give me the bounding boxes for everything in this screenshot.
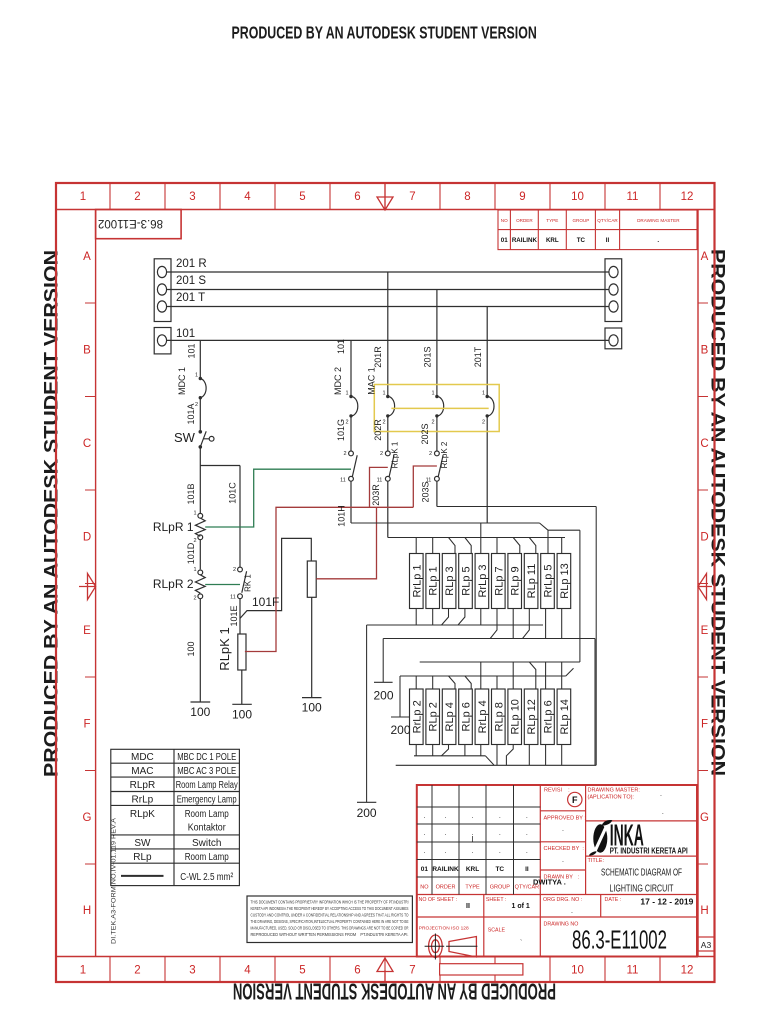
svg-text:.: . <box>660 791 662 798</box>
svg-text:4: 4 <box>244 965 251 977</box>
svg-text:1: 1 <box>482 391 485 397</box>
svg-text:ORDER: ORDER <box>516 218 533 223</box>
svg-text:12: 12 <box>681 191 694 203</box>
svg-text:.: . <box>657 237 659 244</box>
svg-text:200: 200 <box>390 723 410 737</box>
svg-text:RrLp 2: RrLp 2 <box>411 700 423 733</box>
svg-text:RLp 10: RLp 10 <box>510 699 522 734</box>
svg-text:2: 2 <box>380 451 383 457</box>
svg-text:NO OF SHEET :: NO OF SHEET : <box>419 897 458 903</box>
svg-text:Emergency Lamp: Emergency Lamp <box>177 794 237 805</box>
svg-text:100: 100 <box>232 708 252 722</box>
svg-text:11: 11 <box>377 478 383 484</box>
svg-text:REVISI :: REVISI : <box>544 788 570 794</box>
svg-text:.: . <box>526 813 528 820</box>
svg-text:5: 5 <box>299 191 305 203</box>
svg-text:100: 100 <box>302 701 322 715</box>
svg-text:201R: 201R <box>373 346 383 368</box>
svg-text:RLpK 1: RLpK 1 <box>217 627 232 670</box>
svg-text:2: 2 <box>429 451 432 457</box>
svg-text:RLp 9: RLp 9 <box>510 566 522 595</box>
svg-text:2: 2 <box>431 420 434 426</box>
svg-text:.: . <box>445 830 447 837</box>
svg-text:7: 7 <box>409 191 415 203</box>
svg-text:101D: 101D <box>186 542 196 564</box>
svg-text:SCHEMATIC DIAGRAM OF: SCHEMATIC DIAGRAM OF <box>601 867 682 879</box>
svg-text:RLp 13: RLp 13 <box>559 563 571 598</box>
svg-text:RLpK 1: RLpK 1 <box>391 441 400 468</box>
svg-text:MDC 2: MDC 2 <box>333 367 343 395</box>
svg-text:.: . <box>662 809 664 816</box>
svg-text:.: . <box>571 908 573 915</box>
svg-text:101: 101 <box>187 343 197 358</box>
svg-text:RLp 14: RLp 14 <box>559 699 571 734</box>
svg-text:TYPE: TYPE <box>465 885 480 891</box>
svg-text:RK 1: RK 1 <box>244 574 253 592</box>
svg-text:11: 11 <box>340 478 346 484</box>
svg-text:01: 01 <box>421 866 429 873</box>
svg-text:Room Lamp: Room Lamp <box>185 809 229 820</box>
svg-text:101F: 101F <box>252 595 279 609</box>
svg-text:11: 11 <box>230 595 236 601</box>
svg-text:G: G <box>700 812 709 824</box>
svg-text:1: 1 <box>345 391 348 397</box>
svg-text:CUSTODY AND CONTROL UNDER A CO: CUSTODY AND CONTROL UNDER A CONFIDENTIAL… <box>251 913 409 918</box>
svg-text:TYPE: TYPE <box>546 218 558 223</box>
svg-text:201T: 201T <box>473 346 483 367</box>
svg-text:A: A <box>83 251 91 263</box>
svg-text:101E: 101E <box>229 605 239 626</box>
svg-text:MDC: MDC <box>131 752 154 763</box>
svg-text:2: 2 <box>382 420 385 426</box>
svg-text:.: . <box>499 813 501 820</box>
svg-text:01: 01 <box>501 237 508 244</box>
svg-text:KRL: KRL <box>546 237 559 244</box>
svg-text:1: 1 <box>80 191 86 203</box>
svg-text:DWITYA .: DWITYA . <box>533 878 566 887</box>
svg-text:MBC DC 1 POLE: MBC DC 1 POLE <box>177 752 236 763</box>
svg-text:A3: A3 <box>701 940 712 950</box>
svg-text:E: E <box>701 625 709 637</box>
svg-text:11: 11 <box>627 191 639 203</box>
svg-text:TITLE:: TITLE: <box>588 858 605 864</box>
svg-text:ORG DRG. NO :: ORG DRG. NO : <box>543 897 582 903</box>
svg-text:2: 2 <box>193 596 196 602</box>
svg-text:RrLp 4: RrLp 4 <box>477 700 489 733</box>
svg-text:2: 2 <box>195 402 198 408</box>
svg-text:GROUP: GROUP <box>572 218 589 223</box>
svg-text:203S: 203S <box>421 481 431 502</box>
svg-text:PT. INDUSTRI KERETA API: PT. INDUSTRI KERETA API <box>610 846 688 855</box>
svg-text:17 - 12 - 2019: 17 - 12 - 2019 <box>640 897 693 907</box>
svg-text:RLpR: RLpR <box>130 780 156 791</box>
svg-text:2: 2 <box>134 965 140 977</box>
svg-text:3: 3 <box>189 191 195 203</box>
svg-text:B: B <box>701 345 709 357</box>
svg-text:101C: 101C <box>228 482 238 504</box>
svg-text:DRAWING MASTER: DRAWING MASTER <box>637 218 680 223</box>
svg-text:100: 100 <box>186 641 196 656</box>
svg-text:THIS DOCUMENT CONTAINS PROPRIE: THIS DOCUMENT CONTAINS PROPRIETARY INFOR… <box>251 900 409 905</box>
svg-text:RAILINK: RAILINK <box>432 866 459 873</box>
svg-text:NO: NO <box>420 885 429 891</box>
svg-text:H: H <box>700 905 708 917</box>
svg-text:100: 100 <box>190 705 210 719</box>
svg-text:101B: 101B <box>186 483 196 504</box>
svg-text:.: . <box>472 848 474 855</box>
svg-text:PRODUCED BY AN AUTODESK STUDEN: PRODUCED BY AN AUTODESK STUDENT VERSION <box>707 249 729 776</box>
svg-text:II: II <box>606 237 610 244</box>
svg-text:H: H <box>83 905 91 917</box>
svg-text:101: 101 <box>336 339 346 354</box>
svg-text:SHEET :: SHEET : <box>486 897 507 903</box>
svg-text:C: C <box>700 438 708 450</box>
svg-text:RLpK 2: RLpK 2 <box>440 441 449 468</box>
svg-text:G: G <box>83 812 92 824</box>
svg-text:D: D <box>700 532 708 544</box>
svg-text:12: 12 <box>681 965 694 977</box>
svg-text:1: 1 <box>195 373 198 379</box>
svg-text:2: 2 <box>345 420 348 426</box>
svg-text:2: 2 <box>134 191 140 203</box>
svg-text:C: C <box>83 438 91 450</box>
svg-text:F: F <box>572 795 578 805</box>
svg-text:CHECKED BY :: CHECKED BY : <box>544 846 585 852</box>
svg-text:.: . <box>423 830 425 837</box>
svg-text:II: II <box>525 866 529 873</box>
svg-text:101: 101 <box>176 328 195 340</box>
svg-text:.: . <box>562 857 564 864</box>
svg-text:GROUP: GROUP <box>490 885 511 891</box>
svg-text:RLp 12: RLp 12 <box>526 699 538 734</box>
svg-text:202S: 202S <box>420 423 430 444</box>
svg-text:RLpR 1: RLpR 1 <box>153 520 194 534</box>
svg-text:MANUFACTURED, USED, SOLD OR DI: MANUFACTURED, USED, SOLD OR DISCLOSED TO… <box>251 926 409 931</box>
svg-text:PRODUCED BY AN AUTODESK STUDEN: PRODUCED BY AN AUTODESK STUDENT VERSION <box>41 250 63 777</box>
svg-text:B: B <box>83 345 91 357</box>
svg-text:SW: SW <box>134 838 151 849</box>
svg-text:MAC 1: MAC 1 <box>367 367 377 395</box>
svg-text:E: E <box>83 625 91 637</box>
svg-text:.: . <box>526 830 528 837</box>
svg-text:`: ` <box>520 940 522 947</box>
svg-text:201 R: 201 R <box>176 258 207 270</box>
svg-text:6: 6 <box>354 191 360 203</box>
svg-text:(APLICATION TO):: (APLICATION TO): <box>588 795 635 801</box>
svg-text:RLp 8: RLp 8 <box>493 702 505 731</box>
svg-text:MAC: MAC <box>131 766 153 777</box>
svg-text:Kontaktor: Kontaktor <box>188 823 227 834</box>
svg-text:86.3-E11002: 86.3-E11002 <box>572 925 667 955</box>
svg-text:RrLp: RrLp <box>132 794 154 805</box>
svg-text:DATE :: DATE : <box>605 897 622 903</box>
svg-text:2: 2 <box>233 567 236 573</box>
svg-text:11: 11 <box>627 965 639 977</box>
svg-text:RrLp 3: RrLp 3 <box>477 564 489 597</box>
svg-text:201 T: 201 T <box>176 292 205 304</box>
svg-text:2: 2 <box>193 538 196 544</box>
svg-text:TC: TC <box>495 866 504 873</box>
svg-text:86.3-E11002: 86.3-E11002 <box>98 217 163 229</box>
svg-text:2: 2 <box>343 451 346 457</box>
svg-text:RLp 6: RLp 6 <box>461 702 473 731</box>
svg-text:200: 200 <box>357 806 377 820</box>
svg-text:RLpK: RLpK <box>130 809 155 820</box>
svg-text:RLpR 2: RLpR 2 <box>153 577 194 591</box>
svg-text:10: 10 <box>571 965 584 977</box>
svg-text:RLp 11: RLp 11 <box>526 564 538 599</box>
svg-text:7: 7 <box>409 965 415 977</box>
svg-text:.: . <box>499 848 501 855</box>
svg-text:1 of 1: 1 of 1 <box>512 903 530 910</box>
svg-text:RrLp 1: RrLp 1 <box>411 564 423 597</box>
svg-text:RrLp 6: RrLp 6 <box>543 700 555 733</box>
svg-text:RLp 7: RLp 7 <box>493 566 505 595</box>
svg-text:RLp 5: RLp 5 <box>461 566 473 595</box>
svg-text:11: 11 <box>426 478 432 484</box>
svg-text:RLp 2: RLp 2 <box>428 702 440 731</box>
svg-text:PROJECTION ISO 128: PROJECTION ISO 128 <box>419 926 469 932</box>
svg-text:KRL: KRL <box>466 866 479 873</box>
svg-text:.: . <box>445 813 447 820</box>
svg-text:SW: SW <box>174 430 196 445</box>
svg-text:Switch: Switch <box>192 838 221 849</box>
svg-text:5: 5 <box>299 965 305 977</box>
svg-text:.: . <box>472 813 474 820</box>
svg-text:KERETA API INDONESIA.THE RECIP: KERETA API INDONESIA.THE RECIPIENT HEREO… <box>251 906 409 911</box>
svg-text:I: I <box>471 835 473 844</box>
svg-text:D: D <box>83 532 91 544</box>
svg-text:RrLp 5: RrLp 5 <box>543 564 555 597</box>
svg-text:APPROVED BY :: APPROVED BY : <box>544 816 587 822</box>
svg-text:.: . <box>526 848 528 855</box>
svg-text:II: II <box>466 903 470 910</box>
svg-text:REPRODUCED WITHOUT WRITTEN PER: REPRODUCED WITHOUT WRITTEN PERMISSIONS F… <box>251 932 409 937</box>
svg-text:THE DRAWING, DESIGNS, SPECIFIC: THE DRAWING, DESIGNS, SPECIFICATION,INTE… <box>251 919 409 924</box>
svg-text:DI.TEK.A3-FORM.NO.IV-01.119 RE: DI.TEK.A3-FORM.NO.IV-01.119 REV.A <box>112 818 118 944</box>
svg-text:NO: NO <box>501 218 508 223</box>
svg-text:101H: 101H <box>337 505 347 527</box>
svg-text:6: 6 <box>354 965 360 977</box>
svg-text:Room Lamp: Room Lamp <box>185 852 229 863</box>
svg-text:RAILINK: RAILINK <box>512 237 538 244</box>
svg-text:F: F <box>701 719 708 731</box>
svg-text:MBC AC 3 POLE: MBC AC 3 POLE <box>177 766 236 777</box>
svg-text:DRAWING MASTER:: DRAWING MASTER: <box>588 788 641 794</box>
svg-text:LIGHTING CIRCUIT: LIGHTING CIRCUIT <box>610 883 674 895</box>
svg-text:203R: 203R <box>371 484 381 506</box>
svg-text:RLp 4: RLp 4 <box>444 702 456 731</box>
svg-text:201S: 201S <box>423 346 433 367</box>
svg-text:1: 1 <box>431 391 434 397</box>
svg-text:.: . <box>423 848 425 855</box>
svg-text:1: 1 <box>382 391 385 397</box>
svg-text:9: 9 <box>519 191 525 203</box>
svg-text:RLp 1: RLp 1 <box>428 566 440 595</box>
svg-text:.: . <box>423 813 425 820</box>
svg-text:10: 10 <box>571 191 584 203</box>
svg-text:1: 1 <box>80 965 86 977</box>
svg-text:RLp 3: RLp 3 <box>444 566 456 595</box>
svg-text:MDC 1: MDC 1 <box>177 367 187 395</box>
svg-text:C-WL 2.5 mm²: C-WL 2.5 mm² <box>180 872 234 883</box>
svg-text:3: 3 <box>189 965 195 977</box>
svg-text:4: 4 <box>244 191 251 203</box>
svg-text:.: . <box>562 826 564 833</box>
svg-text:2: 2 <box>482 420 485 426</box>
svg-text:200: 200 <box>373 689 393 703</box>
svg-text:1: 1 <box>193 567 196 573</box>
svg-text:ORDER: ORDER <box>436 885 456 891</box>
svg-text:201 S: 201 S <box>176 275 206 287</box>
svg-text:QTY/CAR: QTY/CAR <box>597 218 618 223</box>
svg-text:Room Lamp Relay: Room Lamp Relay <box>176 780 238 791</box>
svg-text:1: 1 <box>193 511 196 517</box>
svg-text:.: . <box>445 848 447 855</box>
svg-text:8: 8 <box>464 191 470 203</box>
svg-text:A: A <box>701 251 709 263</box>
svg-text:.: . <box>499 830 501 837</box>
svg-text:RLp: RLp <box>133 852 152 863</box>
svg-text:SCALE: SCALE <box>488 928 506 934</box>
svg-text:TC: TC <box>577 237 586 244</box>
svg-text:F: F <box>83 719 90 731</box>
svg-text:PRODUCED BY AN AUTODESK STUDEN: PRODUCED BY AN AUTODESK STUDENT VERSION <box>232 23 537 43</box>
